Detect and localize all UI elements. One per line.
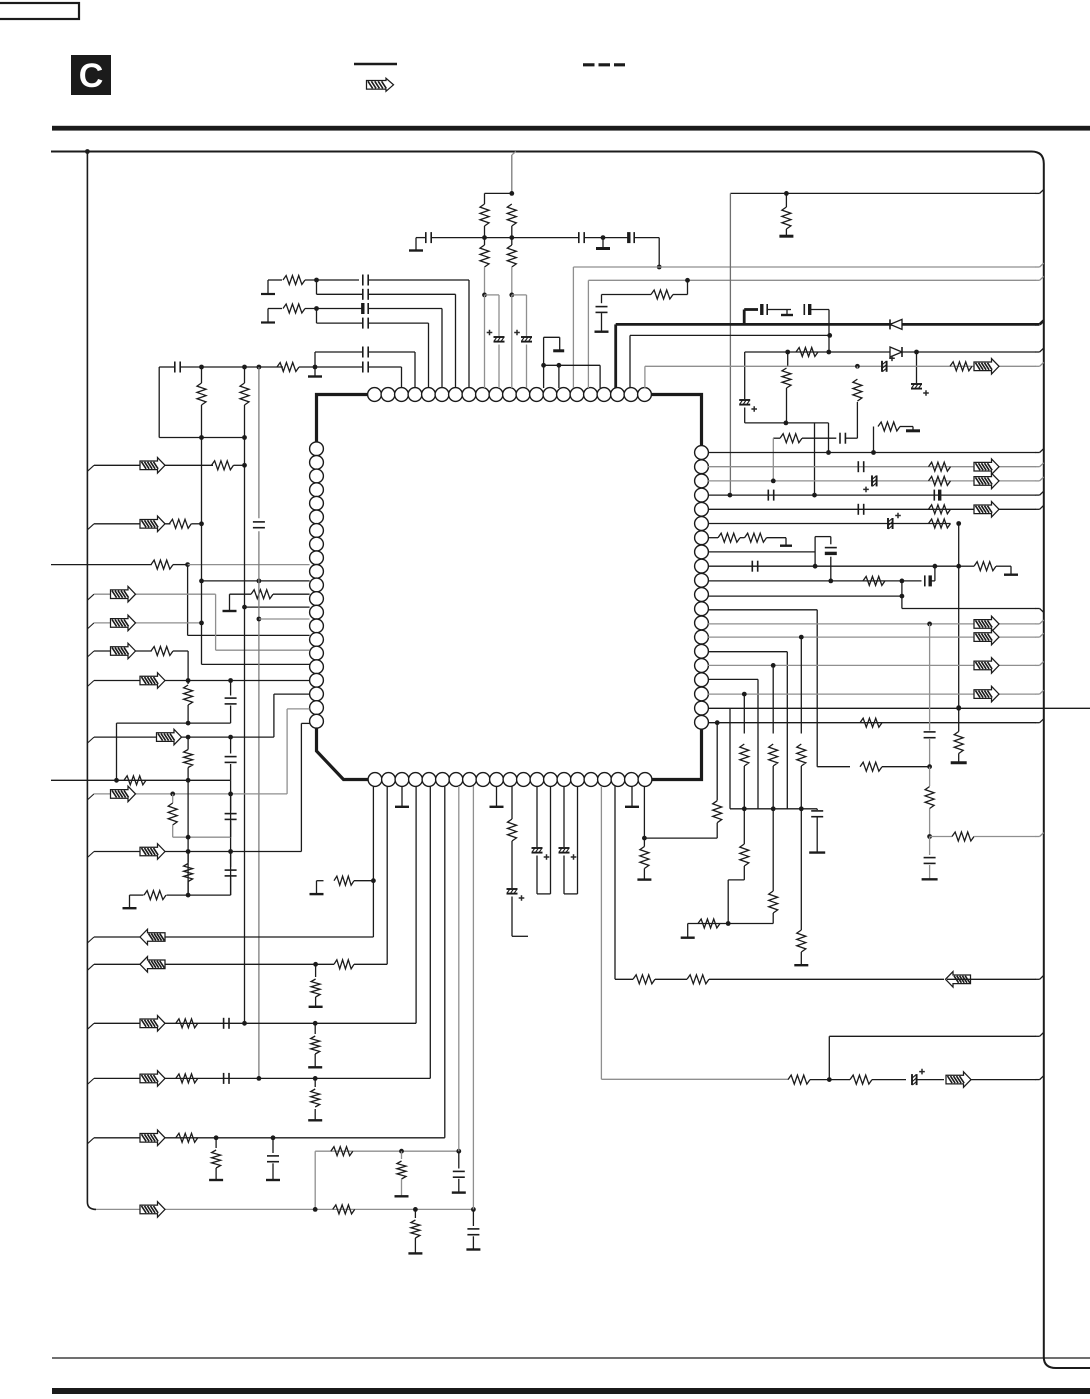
bus row 651 with arrow bbox=[87, 651, 94, 657]
pin11B net resistor R38 bbox=[511, 786, 513, 819]
offpage arrow A2 bbox=[974, 459, 999, 475]
col 230 down bbox=[230, 780, 232, 895]
resistor R39 bbox=[633, 975, 655, 984]
wire to col 187.6 bbox=[173, 564, 188, 566]
wire node to C4 bbox=[316, 309, 318, 324]
diode D2 bbox=[901, 347, 903, 357]
capacitor C12 polarized bbox=[627, 232, 630, 243]
resistor R9 bbox=[507, 245, 516, 267]
wire corner to pin1R row bbox=[828, 423, 830, 454]
resistor R3 bbox=[277, 363, 299, 372]
terminal stub J1 bbox=[261, 293, 275, 295]
pin3R net gray bbox=[708, 480, 1036, 482]
ground bar bbox=[951, 761, 967, 764]
gray col 215.6 bbox=[215, 594, 217, 650]
pin14R net gray bbox=[708, 636, 1036, 638]
capacitor C5 bbox=[174, 362, 176, 373]
electrolytic C20 inline bbox=[871, 475, 873, 486]
capacitor C13 bbox=[601, 295, 603, 304]
resistor R14 bbox=[950, 362, 972, 371]
electrolytic C18 inline bbox=[881, 361, 883, 372]
terminal bar pin20B bbox=[631, 786, 633, 806]
offpage arrow A1 bbox=[974, 359, 999, 375]
gray bus row 594 with arrow bbox=[87, 594, 94, 600]
offpage arrow A24 bbox=[140, 1130, 165, 1146]
row to pin14L bbox=[188, 634, 310, 636]
gray sub row 837.2 bbox=[173, 836, 231, 838]
bus row 680.5 to pin18L bbox=[87, 681, 94, 687]
section label C (black square) bbox=[71, 55, 111, 95]
offpage arrow A17 bbox=[157, 729, 182, 745]
capacitor C14 polarized bbox=[760, 304, 763, 315]
capacitor C6 bbox=[362, 347, 364, 358]
resistor R42 bbox=[850, 1075, 872, 1084]
pin9R net bbox=[708, 565, 959, 567]
resistor R34 col 801 to ground bbox=[800, 809, 802, 930]
capacitor C33 bbox=[253, 521, 265, 523]
offpage arrow A12 bbox=[140, 516, 165, 532]
resistor R45 bbox=[151, 560, 173, 569]
resistor R6 bbox=[480, 204, 489, 226]
thick bus entry bbox=[1036, 323, 1040, 326]
frame bottom line bbox=[52, 1357, 1090, 1359]
row from page edge 564.6 bbox=[51, 564, 152, 566]
offpage arrow A8 bbox=[974, 686, 999, 702]
col 188 lower bbox=[187, 780, 189, 895]
pins 13-14T harness with ground bbox=[544, 364, 601, 366]
pin5B col bbox=[429, 786, 431, 1078]
resistor R15 below gray row bbox=[856, 366, 858, 369]
resistor R18 bbox=[929, 476, 951, 485]
capacitor C1 bbox=[362, 275, 364, 286]
wire from top frame bbox=[512, 152, 516, 156]
offpage arrow A11 bbox=[140, 458, 165, 474]
pin18R net gray bbox=[708, 693, 1036, 695]
capacitor C11 bbox=[578, 232, 580, 243]
wire to col 188 bbox=[173, 650, 188, 652]
offpage arrow A21 left bbox=[140, 957, 165, 973]
resistor R43 bbox=[212, 461, 234, 470]
bus row 1078.4 to pin5B bbox=[87, 1078, 94, 1084]
pin1B col bbox=[372, 881, 374, 937]
bus row 964.3 left arrow from pin2B bbox=[87, 964, 94, 970]
pin8B col gray bbox=[472, 786, 474, 1209]
row 808.8 collector bbox=[730, 808, 817, 810]
svg-text:C: C bbox=[79, 57, 104, 95]
row pin19T bbox=[630, 334, 830, 336]
offpage arrow A15 bbox=[111, 643, 136, 659]
col 201.5 bbox=[201, 438, 203, 665]
offpage arrow A4 bbox=[974, 502, 999, 518]
wire C7 to pin3T bbox=[369, 366, 402, 368]
gray col 258.9 with cap bbox=[258, 367, 260, 518]
resistor R48 col188 bbox=[187, 681, 189, 685]
resistor R23 bbox=[863, 576, 885, 585]
junction on gray row bbox=[657, 265, 662, 270]
electrolytic C16 below corner bbox=[744, 352, 746, 399]
pin4B col bbox=[415, 786, 417, 1023]
terminal bar pin10B bbox=[496, 786, 498, 806]
pin11R net bbox=[708, 595, 902, 597]
ground bar bbox=[553, 349, 564, 352]
wire R9 to node bbox=[511, 267, 513, 295]
gray wire to pin9L bbox=[188, 564, 310, 566]
thick branch to cap pair bbox=[743, 310, 746, 325]
resistor R7 bbox=[507, 204, 516, 226]
terminal stub J2 bbox=[261, 321, 275, 323]
pin10R net bbox=[708, 580, 922, 582]
row 838.1 bbox=[644, 837, 717, 839]
terminal bar below R11 bbox=[779, 235, 793, 238]
resistor R1 bbox=[283, 276, 305, 285]
pin15R net bbox=[708, 651, 787, 653]
terminal stub J3 bbox=[409, 249, 423, 251]
capacitor C21 bbox=[767, 490, 769, 501]
pin1R net bbox=[708, 452, 1036, 454]
wire to R6 top bbox=[485, 192, 512, 194]
resistor R56 bbox=[176, 1019, 198, 1028]
IC U1 top pins bbox=[368, 388, 382, 402]
capacitor C41 to ground bbox=[458, 1151, 460, 1168]
row to bus with resistor R28 bbox=[930, 836, 952, 838]
gray bus row 1209.4 to pin8B bbox=[96, 1208, 473, 1210]
resistor R30 in col 773 bbox=[772, 665, 774, 733]
resistor R4 below node A bbox=[201, 367, 203, 383]
short rule above arrow bbox=[354, 63, 397, 66]
row from bus via corner col bbox=[730, 192, 1036, 194]
wire C3 to pin6T bbox=[369, 308, 442, 310]
offpage arrow A18 bbox=[111, 786, 136, 802]
capacitor C38 bbox=[223, 1018, 225, 1029]
resistor R65 to ground bbox=[414, 1209, 416, 1218]
header thick bar bbox=[52, 126, 1090, 131]
resistor R10 bbox=[651, 290, 673, 299]
row to pin12L bbox=[245, 606, 310, 608]
wire R8 to node bbox=[484, 267, 486, 295]
capacitor C3 bbox=[361, 303, 364, 314]
wire C5 to R3 bbox=[181, 366, 283, 368]
resistor R31 in col 801 bbox=[800, 637, 802, 733]
resistor R44 bbox=[169, 519, 191, 528]
resistor R13 bbox=[796, 348, 818, 357]
pin7B col gray bbox=[458, 786, 460, 1151]
pin18B long gray col bbox=[600, 786, 602, 1079]
dashed marks bbox=[583, 63, 625, 66]
resistor R2 bbox=[283, 304, 305, 313]
pin6R net bbox=[708, 523, 951, 525]
resistor R59 to ground bbox=[314, 1078, 316, 1087]
pin12R net bbox=[708, 609, 817, 611]
ground stub G2 bbox=[768, 309, 783, 311]
row 438.2 resistor R16 bbox=[773, 437, 780, 439]
capacitor C28 branch bbox=[816, 809, 818, 810]
electrolytic C30 pins13-14B bbox=[536, 786, 538, 847]
resistor R24 bbox=[860, 718, 882, 727]
riser to pin21L bbox=[300, 723, 302, 851]
resistor R46 bbox=[251, 590, 273, 599]
resistor R55 bbox=[334, 960, 354, 969]
resistor R32 below row 808 bbox=[743, 809, 745, 844]
long col down right bbox=[958, 524, 960, 708]
offpage arrow A25 bbox=[140, 1202, 165, 1218]
resistor R64 bbox=[333, 1205, 355, 1214]
ground stub G3 bbox=[687, 924, 689, 938]
offpage arrow A6 bbox=[974, 629, 999, 645]
pin19B col to row 979 bbox=[614, 786, 616, 979]
capacitor C40 to ground bbox=[272, 1138, 274, 1153]
pin2R net gray bbox=[708, 466, 1036, 468]
bus row 937 left arrow from pin1B bbox=[87, 937, 94, 943]
capacitor C22 polarized bbox=[933, 490, 935, 501]
wire C12 to corner down bbox=[635, 237, 660, 239]
pin6B col bbox=[444, 786, 446, 1138]
wire down to row 780 bbox=[116, 723, 118, 780]
resistor R33 below row 808 col 773 bbox=[772, 809, 774, 891]
wire R6 to R8 bbox=[484, 226, 486, 245]
pin4R net bbox=[708, 494, 1036, 496]
resistor R22 bbox=[974, 562, 996, 571]
capacitor C7 bbox=[362, 362, 364, 373]
bus row 465 with arrow bbox=[87, 465, 94, 471]
resistor R19 bbox=[929, 519, 951, 528]
gray col with cap C26 bbox=[929, 624, 931, 731]
pin13R net gray bbox=[708, 623, 1036, 625]
wire node up to C6 row bbox=[314, 352, 316, 367]
IC U1 left pins bbox=[310, 442, 324, 456]
wire C11 to ground stub bbox=[585, 237, 629, 239]
gray col link rows bbox=[314, 1151, 316, 1209]
wire L to lower col bbox=[728, 879, 744, 881]
electrolytic C17 below node bbox=[916, 352, 918, 383]
row 422.9 wires bbox=[745, 422, 829, 424]
wire left L to C5 bbox=[159, 366, 174, 368]
gray col from row down to pin4R row bbox=[729, 193, 731, 495]
electrolytic C23 inline bbox=[887, 518, 889, 529]
wire C1 to pin8T bbox=[369, 279, 469, 281]
capacitor C27 to ground bbox=[929, 837, 931, 856]
capacitor C37 bbox=[230, 852, 232, 868]
resistor R29 in col 744 bbox=[743, 694, 745, 733]
row with diode D2 bbox=[745, 351, 1036, 353]
diode D1 bbox=[889, 319, 891, 329]
offpage arrow A9 left bbox=[946, 972, 971, 988]
resistor R52 bbox=[187, 852, 189, 863]
resistor R5 below node B bbox=[244, 367, 246, 383]
wire node to C2 bbox=[316, 280, 318, 294]
terminal bar pin3B bbox=[401, 786, 403, 806]
offpage arrow A7 bbox=[974, 658, 999, 674]
offpage arrow A20 left bbox=[140, 929, 165, 945]
resistor R27 below bbox=[929, 767, 931, 786]
resistor R8 bbox=[480, 245, 489, 267]
resistor R36 in col 717 bbox=[716, 723, 718, 801]
offpage arrow A14 bbox=[111, 615, 136, 631]
footer thick bar bbox=[52, 1388, 1090, 1394]
IC U1 right pins bbox=[695, 446, 709, 460]
capacitor C19 bbox=[839, 433, 841, 444]
resistor R61 to ground bbox=[215, 1138, 217, 1148]
ground stub G4 bbox=[129, 895, 131, 907]
junction resistor to ground bbox=[313, 962, 318, 967]
wire R2 to C3 bbox=[305, 308, 362, 310]
capacitor C39 bbox=[223, 1073, 225, 1084]
offpage arrow A3 bbox=[974, 473, 999, 489]
wire C25 up to row9 bbox=[931, 580, 935, 582]
node with ground stub bbox=[313, 365, 318, 370]
bus row 851.5 to pin21L riser bbox=[87, 852, 94, 858]
resistor R25 on long col bbox=[954, 732, 963, 754]
junction left bus to top frame bbox=[85, 149, 90, 154]
terminal stub bbox=[767, 537, 787, 539]
wire C10 along divider row bbox=[432, 237, 579, 239]
gray row pin20T bbox=[645, 365, 1036, 367]
resistor R11 below row bbox=[785, 193, 787, 207]
wire C2 to pin7T bbox=[369, 293, 456, 295]
resistor R51 gray loop bbox=[172, 794, 174, 803]
capacitor C15 polarized bbox=[803, 304, 805, 315]
resistor R57 to ground bbox=[314, 1023, 316, 1034]
left bus wire bbox=[87, 152, 96, 1210]
page legend arrow bbox=[367, 78, 394, 91]
offpage arrow A22 bbox=[140, 1016, 165, 1032]
resistor R40 bbox=[687, 975, 709, 984]
row 766.7 with resistor R26 bbox=[817, 766, 850, 768]
jog to bus bbox=[901, 596, 903, 608]
resistor R41 bbox=[788, 1075, 810, 1084]
capacitor C10 bbox=[425, 232, 427, 243]
pin17R net bbox=[708, 678, 758, 680]
capacitor C42 to ground bbox=[472, 1209, 474, 1226]
wire branch down to R10 bbox=[687, 280, 689, 294]
electrolytic C32 inline bbox=[911, 1074, 913, 1085]
resistor R50 bbox=[124, 776, 146, 785]
bus row 737.1 to pin19L riser bbox=[87, 737, 94, 743]
electrolytic C31 pins15-16B bbox=[563, 786, 565, 847]
capacitor C34 col230 bbox=[230, 681, 232, 696]
capacitor C25 polarized bbox=[924, 575, 926, 586]
pin19R net crossing to page edge bbox=[708, 707, 1090, 709]
col 188 resistor R49 bbox=[187, 737, 189, 749]
sub row 895.1 with resistor R53 bbox=[130, 894, 144, 896]
row 1079.3 gray to resistors bbox=[601, 1078, 788, 1080]
gray row to pin15T bbox=[573, 266, 1036, 268]
gray row 1151.2 pin7B bbox=[315, 1150, 459, 1152]
bus row 1023.3 to pin4B bbox=[87, 1023, 94, 1029]
thick net row bbox=[616, 323, 1036, 326]
pin16R net gray bbox=[708, 664, 1036, 666]
capacitor C2 bbox=[362, 289, 364, 300]
offpage arrow A23 bbox=[140, 1071, 165, 1087]
wire node to C7 bbox=[299, 366, 362, 368]
ground-resistor to pin11L bbox=[229, 594, 231, 610]
resistor R20 bbox=[718, 533, 740, 542]
wire C6 to pin4T bbox=[369, 351, 415, 353]
resistor R12 on branch bbox=[787, 352, 789, 367]
col 244.5 long bbox=[244, 438, 246, 1024]
pin20R net bbox=[708, 722, 1036, 724]
col 230 capacitor C35 bbox=[230, 737, 232, 753]
resistor R37 to ground bbox=[640, 847, 649, 869]
wire row joining R4 R5 bottoms bbox=[159, 437, 244, 439]
gray row to pin13L bbox=[259, 618, 310, 620]
resistor R17 with bar bbox=[873, 427, 875, 454]
ground stub G1 bbox=[602, 238, 604, 248]
offpage arrow A5 bbox=[974, 616, 999, 632]
offpage arrow A10 bbox=[946, 1072, 971, 1088]
capacitor C36 bbox=[230, 794, 232, 811]
pin8R net bbox=[708, 551, 815, 553]
pin21B col bbox=[643, 786, 645, 838]
resistor R21 bbox=[745, 533, 767, 542]
row to pin16L bbox=[202, 663, 310, 665]
IC U1 bottom pins bbox=[368, 773, 382, 787]
pin5R net bbox=[708, 508, 1036, 510]
bus row 524 with arrow bbox=[87, 524, 94, 530]
gray col to pin3R row bbox=[772, 438, 774, 482]
riser to pin19L bbox=[273, 694, 275, 737]
resistor R62 bbox=[331, 1147, 353, 1156]
electrolytic C29 bbox=[507, 888, 518, 890]
offpage arrow A16 bbox=[140, 673, 165, 689]
offpage arrow A13 bbox=[111, 586, 136, 602]
gray row to pin16T bbox=[588, 279, 1036, 281]
gray bus row 623 with arrow bbox=[87, 623, 94, 629]
electrolytic C9 to pin12T bbox=[512, 294, 527, 296]
page header box top-left bbox=[0, 3, 79, 19]
pin2B col bbox=[386, 786, 388, 964]
wire C4 to pin5T bbox=[369, 322, 429, 324]
wire C19 corner up to R15 bbox=[846, 437, 858, 439]
resistor R63 to ground bbox=[401, 1151, 403, 1159]
row to pin10L bbox=[202, 580, 310, 582]
sub row 723.1 bbox=[117, 722, 231, 724]
offpage arrow A19 bbox=[140, 844, 165, 860]
wire R1 to C1 bbox=[305, 279, 359, 281]
loop up to bus bbox=[828, 1036, 830, 1079]
wire node to pin9T bbox=[484, 295, 486, 388]
thick wire to pin18T bbox=[614, 324, 617, 388]
terminal bar below C13 bbox=[601, 313, 603, 331]
electrolytic C8 to pin10T bbox=[485, 294, 500, 296]
resistor R47 bbox=[151, 647, 173, 656]
row from page edge 780.3 bbox=[51, 779, 231, 781]
capacitor C24 polarized bbox=[830, 537, 832, 545]
IC U1 body outline bbox=[317, 395, 702, 780]
gray bus row 793.9 to pin20L riser bbox=[87, 794, 94, 800]
terminal stub bbox=[996, 565, 1011, 567]
wire node to pin11T bbox=[511, 295, 513, 388]
capacitor C4 bbox=[362, 318, 364, 329]
wire R10 to cap C13 bbox=[602, 294, 652, 296]
row 923.5 with resistor R35 bbox=[688, 923, 729, 925]
pin7R net bbox=[708, 537, 718, 539]
resistor R58 bbox=[176, 1074, 198, 1083]
riser to pin20L gray bbox=[286, 709, 288, 794]
bus row 1137.8 to pin6B bbox=[87, 1138, 94, 1144]
resistor R54 with ground bbox=[317, 880, 324, 882]
wire R7 to R9 bbox=[511, 226, 513, 245]
gray row to pin15L bbox=[216, 649, 310, 651]
resistor R60 bbox=[176, 1133, 198, 1142]
wire C15 corner down bbox=[810, 309, 829, 311]
